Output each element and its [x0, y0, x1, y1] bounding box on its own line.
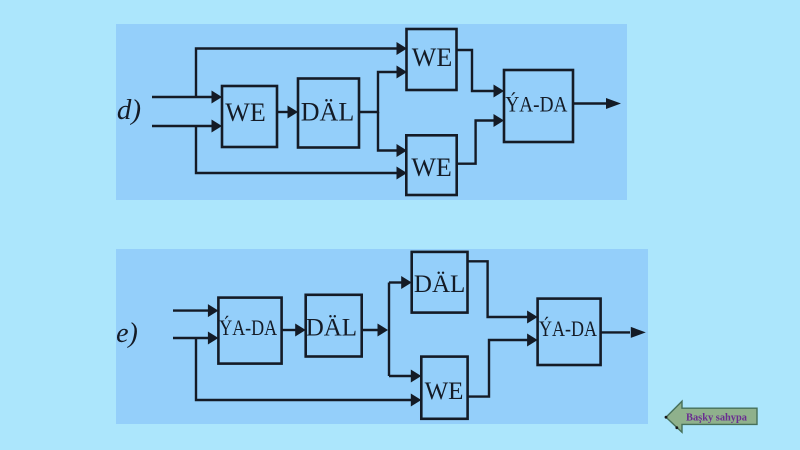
arrow into YADA1e input 1 — [208, 304, 219, 317]
wire WEb to YADA2 (diagram e) — [468, 340, 529, 397]
anchor dot at arrow tip — [665, 416, 668, 419]
arrow into YADA2 input 2 — [527, 334, 538, 347]
wire branch A up (diagram d) — [196, 49, 398, 98]
svg-text:WE: WE — [411, 153, 451, 182]
arrow into YADA1 input 1 — [494, 85, 505, 98]
arrow into YADA1 input 2 — [494, 114, 505, 127]
wire input A (diagram e) — [173, 309, 210, 311]
wire input B (diagram d) — [152, 125, 213, 127]
arrow into WE3 input 1 — [397, 144, 408, 157]
wire DAL1 to split node (diagram d) — [359, 72, 398, 112]
wire output (diagram e) — [601, 331, 630, 333]
svg-text:WE: WE — [412, 43, 452, 72]
svg-text:DÄL: DÄL — [414, 271, 465, 298]
anchor dot at arrow lower corner — [675, 426, 678, 429]
gate YADA1e box — [218, 298, 281, 364]
gate DAL1 box — [298, 79, 359, 148]
arrow into WE1 input A — [212, 91, 223, 104]
gate WE2 box — [407, 29, 457, 90]
wire DALm to split node (diagram e) — [362, 329, 380, 331]
svg-text:d): d) — [117, 94, 141, 126]
svg-text:DÄL: DÄL — [306, 315, 357, 342]
wire WE3 to YADA1 (diagram d) — [457, 121, 496, 164]
arrow into WE2 input 2 — [397, 66, 408, 79]
panel for diagram d — [116, 24, 627, 200]
svg-text:Başky sahypa: Başky sahypa — [686, 412, 748, 423]
svg-text:ÝA-DA: ÝA-DA — [539, 316, 597, 341]
wire branch B down (diagram d) — [196, 126, 398, 173]
arrow into WEb input 2 — [411, 394, 422, 407]
arrow into WE1 input B — [212, 120, 223, 133]
gate YADA2 box — [538, 299, 601, 365]
gate WEb box — [421, 357, 467, 419]
wire WE2 to YADA1 (diagram d) — [457, 50, 496, 91]
arrow into WE3 input 2 — [397, 167, 408, 180]
arrow into YADA2 input 1 — [527, 311, 538, 324]
panel for diagram e — [116, 249, 648, 424]
wire split to WEb (diagram e) — [389, 375, 413, 377]
wire input A (diagram d) — [152, 96, 213, 98]
wire branch B down (diagram e) — [196, 338, 413, 400]
arrow output end (diagram e) — [631, 327, 646, 338]
svg-text:e): e) — [116, 318, 138, 349]
arrow into DAL2 — [401, 276, 412, 289]
home button arrow — [666, 401, 757, 432]
wire split to DAL2 (diagram e) — [389, 281, 403, 283]
svg-text:WE: WE — [225, 98, 265, 127]
wire DAL2 to YADA2 (diagram e) — [468, 261, 530, 317]
arrow output end (diagram d) — [606, 98, 621, 109]
svg-text:DÄL: DÄL — [301, 98, 354, 127]
wire YADA1e to DALm (diagram e) — [282, 329, 297, 331]
gate WE3 box — [406, 135, 456, 195]
arrow into YADA1e input 2 — [208, 332, 219, 345]
gate DALm box — [306, 295, 362, 357]
gate WE1 box — [222, 86, 277, 147]
wire split vertical (diagram e) — [388, 283, 390, 377]
gate YADA1 box — [504, 70, 573, 142]
gate DAL2 box — [412, 252, 468, 313]
wire split node down (diagram d) — [378, 112, 398, 151]
wire output (diagram d) — [573, 102, 607, 104]
arrow into DAL1 — [288, 106, 299, 119]
wire WE1 to DAL1 (diagram d) — [277, 111, 290, 113]
svg-text:ÝA-DA: ÝA-DA — [505, 92, 567, 117]
arrow into WEb input 1 — [411, 370, 422, 383]
wire input B (diagram e) — [173, 337, 210, 339]
svg-text:ÝA-DA: ÝA-DA — [219, 315, 277, 340]
svg-text:WE: WE — [425, 378, 464, 405]
arrow into DALm — [295, 324, 306, 337]
arrow at split junction (diagram e) — [378, 324, 389, 337]
arrow into WE2 input 1 — [397, 42, 408, 55]
